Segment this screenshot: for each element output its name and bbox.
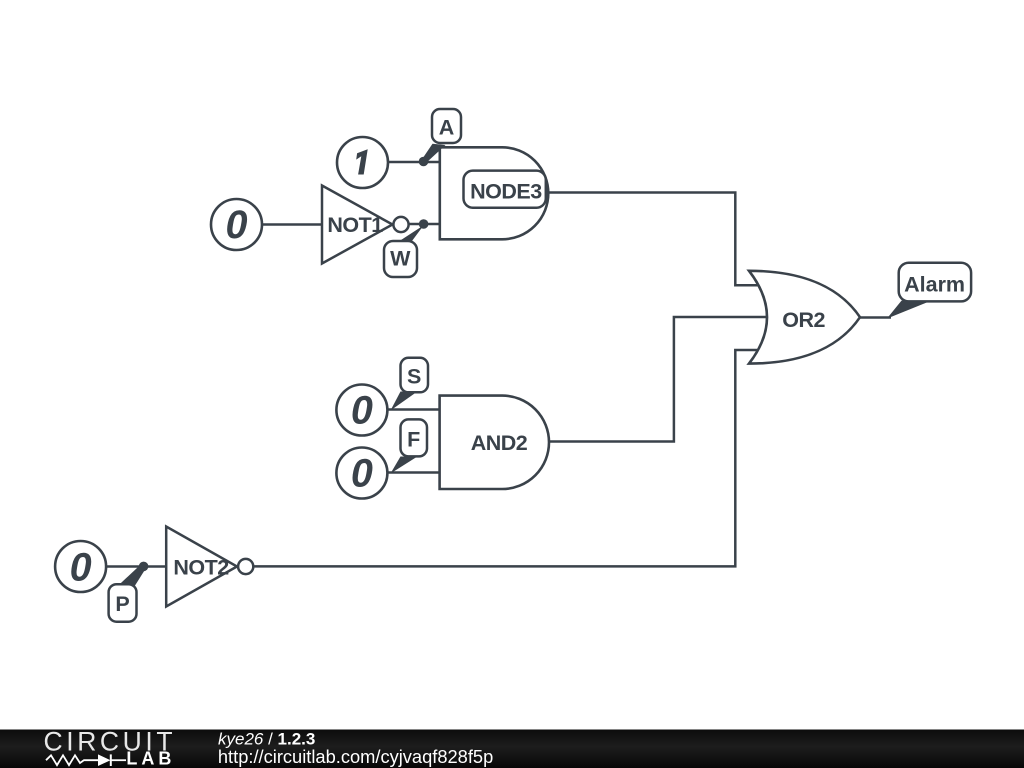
node label W pointer <box>397 222 426 243</box>
svg-text:W: W <box>390 247 411 271</box>
CircuitLab logo diode symbol <box>98 754 111 766</box>
svg-text:LAB: LAB <box>126 749 175 768</box>
svg-text:OR2: OR2 <box>782 308 825 332</box>
junction dot node W <box>419 219 429 229</box>
node label A pointer <box>422 144 446 163</box>
junction dot node A <box>419 157 429 167</box>
input terminal value 1 <box>337 137 388 188</box>
node label P <box>109 584 137 622</box>
wire: terminal 0 to NOT1 input <box>261 223 322 226</box>
wire: OR2 output to Alarm (node Alarm) <box>860 316 891 319</box>
inverter NOT1 <box>322 186 409 264</box>
wire: AND2 output to OR2 middle input <box>543 317 770 442</box>
CircuitLab logo resistor symbol <box>46 755 98 765</box>
node label A <box>432 109 461 143</box>
wire: terminal 0 to NOT2 input (node P) <box>106 565 166 568</box>
wire: NOT2 output to OR2 bottom input <box>254 350 763 566</box>
node label F pointer <box>391 457 418 474</box>
input terminal value 0 (NOT1 input) <box>211 199 262 250</box>
svg-text:Alarm: Alarm <box>904 273 965 297</box>
net flag label Alarm <box>899 263 971 302</box>
node label F <box>401 419 428 456</box>
svg-text:S: S <box>407 364 421 388</box>
net flag Alarm pointer <box>887 301 930 319</box>
svg-text:F: F <box>407 427 420 451</box>
input terminal value 0 (node F) <box>336 448 387 499</box>
or gate OR2 <box>749 271 860 364</box>
svg-text:A: A <box>439 116 455 140</box>
and gate AND2 <box>440 396 549 489</box>
svg-text:NOT2: NOT2 <box>173 555 229 579</box>
svg-text:NOT1: NOT1 <box>327 213 383 237</box>
wire: terminal 1 to NODE3 input (node A) <box>388 161 441 164</box>
net flag label NODE3 <box>464 171 546 208</box>
svg-text:0: 0 <box>351 451 373 495</box>
footer bar <box>0 730 1024 768</box>
svg-text:http://circuitlab.com/cyjvaqf8: http://circuitlab.com/cyjvaqf828f5p <box>218 746 493 767</box>
svg-text:0: 0 <box>226 203 248 247</box>
svg-text:0: 0 <box>351 388 373 432</box>
wire: NODE3 output to OR2 top input (node NODE3) <box>545 193 762 286</box>
svg-text:AND2: AND2 <box>471 431 528 455</box>
svg-text:0: 0 <box>70 545 92 589</box>
svg-text:NODE3: NODE3 <box>470 180 542 204</box>
svg-text:P: P <box>115 592 129 616</box>
node label S pointer <box>391 392 418 411</box>
node label W <box>384 241 417 277</box>
wire: S terminal to AND2 input (node S) <box>387 408 441 411</box>
input terminal value 0 (node S) <box>336 385 387 436</box>
junction dot node P <box>139 562 149 572</box>
inverter NOT2 <box>166 527 253 607</box>
and gate NODE3 <box>440 147 549 239</box>
wire: NOT1 output to NODE3 input (node W) <box>408 223 441 226</box>
node label S <box>401 358 429 393</box>
wire: F terminal to AND2 input (node F) <box>387 471 441 474</box>
input terminal value 0 (node P) <box>55 541 106 592</box>
node label P pointer <box>119 564 146 589</box>
